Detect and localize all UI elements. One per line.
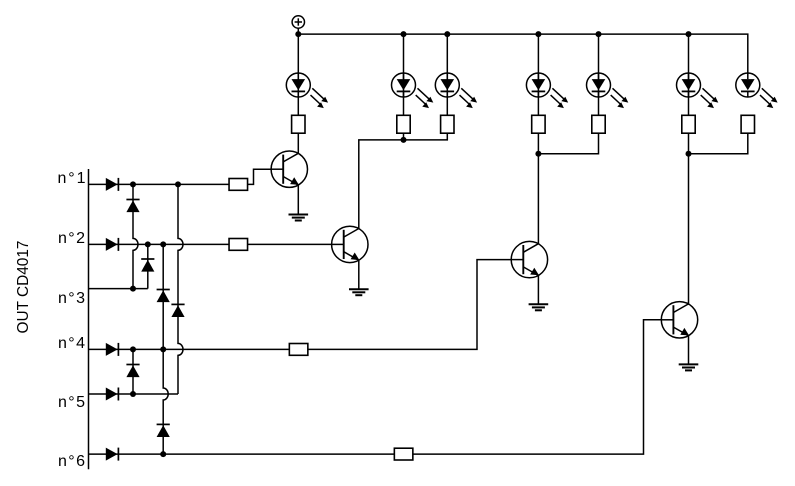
node rail-LED3: [444, 31, 450, 37]
svg-text:n°3: n°3: [58, 290, 85, 307]
wire LED4 branch: [537, 34, 539, 115]
wire LED3 branch: [446, 34, 448, 115]
svg-text:n°4: n°4: [58, 335, 85, 352]
LED D1: [286, 73, 328, 108]
node +V at LED1: [295, 31, 301, 37]
wire Rb1 to Q1 base: [247, 169, 271, 184]
node n4-V5: [130, 346, 136, 352]
node rail-LED5: [596, 31, 602, 37]
wire CD4017 output bus edge: [88, 169, 90, 469]
svg-text:n°5: n°5: [58, 394, 85, 411]
resistor Rb3 (base Q3): [289, 344, 308, 356]
wire Q1 emitter: [297, 185, 299, 214]
wire V1 (n1 to n3) with hop over n2: [133, 184, 138, 288]
ground Q3: [529, 304, 549, 310]
node n1-V1: [130, 181, 136, 187]
diode D23 (V3 upper): [157, 290, 170, 303]
node rail-LED2: [401, 31, 407, 37]
svg-text:OUT CD4017: OUT CD4017: [15, 240, 32, 333]
wire net n6: [89, 453, 395, 455]
wire net n3: [89, 288, 148, 290]
node n3-V1: [130, 286, 136, 292]
LED D6: [677, 73, 719, 108]
diode D15 (n°5 series): [106, 388, 119, 401]
wire R6 to Q4 collector: [688, 133, 690, 304]
wire R4 to Q3 collector: [537, 133, 539, 244]
resistor R5 (LED5): [592, 115, 605, 133]
resistor Rb2 (base Q2): [229, 239, 248, 251]
resistor R4 (LED4): [532, 115, 545, 133]
diode D14 (n°4 series): [106, 343, 119, 356]
wire R5 down and left: [538, 133, 598, 154]
LED D7: [736, 73, 778, 108]
resistor R6 (LED6): [682, 115, 695, 133]
wire V3 (n2 to n6) with hop over n5: [163, 244, 168, 454]
wire LED5 branch: [598, 34, 600, 115]
wire net n1: [89, 183, 230, 185]
resistor R3 (LED3): [441, 115, 454, 133]
wire net n5: [89, 393, 179, 395]
ground Q1: [289, 215, 309, 221]
wire net n4: [89, 348, 289, 350]
node n4-V3: [160, 346, 166, 352]
svg-text:n°6: n°6: [58, 453, 85, 470]
resistor Rb4 (base Q4): [394, 448, 413, 460]
wire R2 to junction: [403, 133, 405, 140]
wire Rb2 to Q2 base: [248, 243, 332, 245]
wire LED2 branch: [403, 34, 405, 115]
node LED2/LED3 join: [401, 137, 407, 143]
node LED4/LED5 join: [535, 151, 541, 157]
ground Q4: [679, 364, 699, 370]
wire Rb3 to Q3 base: [308, 260, 511, 350]
wire net n2: [89, 243, 229, 245]
power supply + symbol: [292, 16, 304, 34]
diode D25 (V4): [171, 304, 184, 317]
wire R7 down and left: [689, 133, 748, 154]
node n2-V2: [145, 241, 151, 247]
LED D5: [587, 73, 629, 108]
svg-text:n°2: n°2: [58, 230, 85, 247]
wire R1 to Q1 collector: [297, 133, 299, 153]
diode D26 (V5): [126, 365, 139, 378]
wire V2 (n2 to n3): [147, 244, 149, 288]
node rail-LED6: [686, 31, 692, 37]
LED D2: [392, 73, 434, 108]
ground Q2: [349, 289, 369, 295]
node n2-V3: [160, 241, 166, 247]
diode D12 (n°2 series): [106, 238, 119, 251]
wire +V rail: [298, 34, 748, 73]
transistor Q3: [511, 241, 547, 277]
transistor Q4: [661, 302, 697, 338]
resistor R2 (LED2): [397, 115, 410, 133]
wire R3 down and left to Q2 collector: [359, 133, 448, 229]
wire Rb4 to Q4 base: [413, 320, 661, 454]
transistor Q1: [271, 151, 307, 187]
resistor R1 (LED1): [292, 115, 305, 133]
node n6-V3: [160, 451, 166, 457]
diode D22 (V2): [141, 259, 154, 272]
resistor Rb1 (base Q1): [229, 179, 248, 191]
transistor Q2: [332, 226, 368, 262]
wire LED1 branch: [297, 34, 299, 115]
wire Q2 emitter: [358, 260, 360, 289]
wire Q4 emitter: [688, 336, 690, 365]
diode D16 (n°6 series): [106, 448, 119, 461]
LED D3: [435, 73, 477, 108]
node n1-V4: [175, 181, 181, 187]
wire Q3 emitter: [537, 276, 539, 305]
wire LED6 branch: [688, 34, 690, 115]
node rail-LED4: [535, 31, 541, 37]
node n5-V5: [130, 391, 136, 397]
node LED6/LED7 join: [686, 151, 692, 157]
wire V4 (n1 to n5) with hops over n2 and n4: [178, 184, 183, 394]
resistor R7 (LED7): [741, 115, 754, 133]
svg-text:n°1: n°1: [58, 170, 86, 187]
diode D24 (V3 lower): [157, 424, 170, 437]
diode D11 (n°1 series): [106, 178, 119, 191]
diode D21 (V1): [126, 200, 139, 213]
LED D4: [526, 73, 568, 108]
wire V5 (n4 to n5): [132, 349, 134, 394]
